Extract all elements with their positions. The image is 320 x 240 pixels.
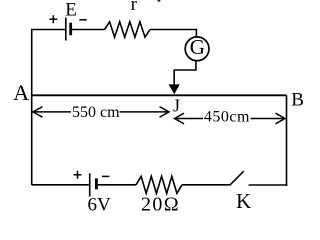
potentiometer wire AB bbox=[31, 94, 287, 96]
wire: switch K to bottom right corner bbox=[249, 184, 288, 186]
wire: battery E to resistor r bbox=[72, 29, 105, 31]
svg-text:B: B bbox=[291, 89, 304, 110]
battery E plus sign bbox=[49, 15, 57, 23]
svg-text:20Ω: 20Ω bbox=[141, 194, 180, 216]
svg-text:A: A bbox=[13, 80, 29, 105]
svg-text:r: r bbox=[131, 0, 138, 15]
jockey arrow bbox=[169, 85, 179, 94]
resistor r bbox=[105, 22, 151, 37]
wire: galvanometer to jockey jog bbox=[174, 60, 196, 86]
svg-text:K: K bbox=[236, 189, 251, 213]
battery 6V minus sign bbox=[102, 175, 109, 177]
wire: top from left corner to battery E bbox=[31, 29, 65, 31]
wire: battery 6V to resistor 20 ohm bbox=[98, 184, 136, 186]
battery E minus sign bbox=[79, 19, 87, 21]
svg-text:450cm: 450cm bbox=[204, 109, 250, 126]
dimension 550 cm arrows bbox=[33, 107, 169, 118]
resistor 20 ohm bbox=[136, 176, 182, 193]
wire: resistor r to galvanometer corner bbox=[150, 30, 196, 38]
battery 6V plates bbox=[90, 173, 97, 196]
svg-text:6V: 6V bbox=[88, 195, 112, 216]
svg-text:G: G bbox=[190, 35, 205, 59]
battery E plates bbox=[66, 18, 71, 41]
switch K blade bbox=[230, 171, 244, 185]
dimension 450 cm arrows bbox=[175, 113, 286, 124]
svg-text:550 cm: 550 cm bbox=[72, 104, 120, 121]
wire: left vertical A-side bbox=[31, 30, 33, 186]
wire: bottom left corner to battery 6V bbox=[32, 184, 89, 186]
battery 6V plus sign bbox=[74, 171, 82, 179]
galvanometer G bbox=[185, 37, 209, 61]
wire: right vertical B-side bbox=[286, 95, 288, 186]
svg-text:E: E bbox=[65, 0, 77, 21]
top edge artifact dot bbox=[158, 0, 161, 2]
svg-text:J: J bbox=[173, 96, 180, 116]
wire: resistor 20 ohm to switch K bbox=[182, 184, 230, 186]
